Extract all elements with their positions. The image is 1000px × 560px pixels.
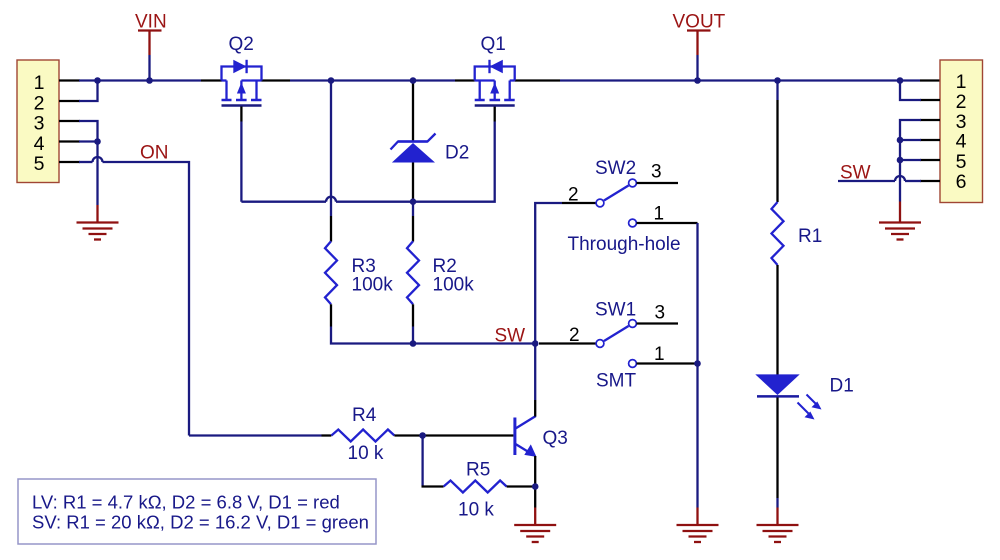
svg-text:10 k: 10 k — [348, 443, 384, 464]
node emitter/R5 — [532, 483, 539, 490]
R5 right pin (black) — [507, 485, 536, 487]
R2 top pin (black) — [412, 216, 414, 242]
svg-text:R5: R5 — [466, 460, 490, 481]
switch SW1 — [569, 300, 698, 368]
ground symbol (left connector) — [77, 223, 119, 240]
wire SW2 pin1 down right vertical — [696, 223, 698, 364]
wire pin1 to node — [79, 79, 98, 81]
svg-text:5: 5 — [34, 153, 45, 175]
VOUT lead blue — [696, 55, 698, 81]
svg-text:D1: D1 — [830, 376, 854, 397]
wire pin3 down — [900, 120, 921, 202]
svg-text:1: 1 — [654, 204, 665, 225]
node J2 pins 3-4 — [897, 137, 904, 144]
Q2 body arrow head — [237, 83, 246, 94]
D1 bottom pin (black) — [776, 398, 778, 499]
svg-text:1: 1 — [956, 71, 967, 93]
SW1 lever — [604, 326, 629, 341]
resistor R4 — [331, 430, 394, 442]
Q3 emitter pin (black) — [534, 456, 536, 487]
svg-text:SW1: SW1 — [595, 300, 636, 321]
Q3 base bar — [513, 418, 516, 456]
wire hop over ground vertical — [895, 176, 905, 181]
Q1 source vertical — [509, 81, 511, 101]
SW1 throw-3 contact circle — [629, 320, 637, 328]
LED D1 — [755, 374, 853, 419]
R3 bottom pin (black) — [330, 304, 332, 326]
SW1 throw-1 contact circle — [629, 360, 637, 368]
ground symbol (switch net) — [677, 525, 719, 542]
wire SW net to hop — [838, 180, 895, 182]
SW2 pin 3 lead (black) — [637, 182, 679, 184]
SW1 pin 1 lead (black) — [637, 362, 698, 364]
wire pin3 down to pin4 node — [79, 121, 98, 142]
VIN lead blue — [148, 55, 150, 81]
svg-text:4: 4 — [34, 133, 45, 155]
wire rail Q2 to R3 node — [290, 79, 331, 81]
wire D1 to ground — [776, 498, 778, 508]
ground symbol (D1) — [757, 525, 799, 542]
SW2 throw-3 contact circle — [629, 179, 637, 187]
Q2 body-diode loop — [222, 67, 262, 81]
svg-text:R1: R1 — [798, 226, 822, 247]
Q1 body diode triangle — [490, 60, 503, 73]
J2 pin 4 stub — [920, 139, 940, 141]
Q3 collector diagonal — [516, 416, 536, 429]
D1 light arrow 1 — [807, 395, 817, 405]
wire R3 bottom to SW rail — [331, 327, 413, 344]
wire R2 bottom to SW rail — [412, 327, 414, 344]
wire gate line horizontal (left of hop) — [241, 201, 326, 203]
node J1 pins 1-2 — [94, 77, 101, 84]
Q1 drain contact bar — [475, 99, 485, 102]
Q1 gate bar — [475, 104, 515, 107]
wire Q2 gate down — [240, 122, 242, 202]
SW1 pin 2 lead (black) — [539, 342, 596, 344]
wire rail Q1 to VOUT node — [560, 79, 920, 81]
node R3 tap — [328, 77, 335, 84]
R1 bottom pin (black) — [776, 265, 778, 375]
wire emitter node to ground — [534, 487, 536, 508]
resistor R3 — [325, 241, 337, 304]
SW2 common contact circle — [596, 199, 604, 207]
svg-text:R4: R4 — [352, 405, 377, 426]
Q2 body diode cathode bar — [245, 60, 247, 73]
Q1 body contact bar — [490, 99, 501, 102]
R1 top pin (black) — [776, 100, 778, 202]
SW2 throw-1 contact circle — [629, 219, 637, 227]
ground lead (red) — [899, 202, 901, 223]
D1 cathode bar — [757, 395, 799, 398]
svg-text:Q2: Q2 — [229, 34, 254, 55]
svg-text:ON: ON — [140, 143, 169, 164]
svg-text:3: 3 — [655, 303, 666, 324]
svg-text:5: 5 — [956, 151, 967, 173]
wire pin4 to node — [900, 139, 921, 141]
resistor R5 — [444, 481, 507, 493]
connector J2 (6-pin) — [940, 60, 983, 203]
SW2 pin 2 lead (black) — [562, 202, 596, 204]
Q2 source contact bar — [222, 99, 232, 102]
node D2 tap — [410, 77, 417, 84]
wire R1 node down — [776, 81, 778, 101]
J2 pin 6 stub — [920, 180, 940, 182]
wire VIN rail left section — [98, 79, 202, 81]
J1 pin 4 stub — [59, 140, 80, 142]
svg-text:Through-hole: Through-hole — [568, 234, 681, 255]
svg-text:10 k: 10 k — [458, 500, 494, 521]
wire pin2 up to node — [79, 81, 98, 102]
SW1 pin 3 lead (black) — [637, 322, 679, 324]
svg-text:3: 3 — [34, 113, 45, 135]
zener diode D2 — [391, 134, 470, 164]
Q3 emitter arrow head — [524, 444, 536, 457]
R2 bottom pin (black) — [412, 304, 414, 326]
D1 triangle — [755, 374, 799, 395]
Q2 source vertical — [225, 81, 227, 101]
wire R4 node down to R5 — [421, 436, 423, 487]
Q1 body-diode loop — [475, 67, 515, 81]
node VOUT tap — [694, 77, 701, 84]
wire hop over R3 vertical — [326, 197, 336, 202]
J1 pin 3 stub — [59, 120, 80, 122]
wire R3 node down — [330, 81, 332, 217]
D2 triangle (anode) — [392, 143, 435, 163]
wire hop to pin6 — [905, 180, 921, 182]
D2 top pin (black) — [412, 81, 414, 142]
node J2 pin 5 — [897, 157, 904, 164]
Q1 source pin (black) — [515, 79, 560, 81]
wire pin5 to node — [900, 159, 921, 161]
VIN underline — [138, 29, 162, 31]
J2 pin 3 stub — [920, 119, 940, 121]
node J2 pins 1-2 — [897, 77, 904, 84]
wire ON line to R4 — [189, 434, 322, 436]
Q1 source contact bar — [504, 99, 515, 102]
node R1 tap — [774, 77, 781, 84]
svg-text:3: 3 — [956, 111, 967, 133]
ground lead (red) — [534, 508, 536, 525]
svg-text:6: 6 — [956, 171, 967, 193]
wire ON horizontal then down — [103, 162, 190, 436]
wire hop over ground wire — [93, 157, 103, 162]
node R2 bottom — [410, 340, 417, 347]
svg-text:3: 3 — [651, 162, 662, 183]
node D2 anode / gate line — [410, 198, 417, 205]
connector J1 (5-pin) — [17, 60, 59, 183]
svg-text:1: 1 — [654, 344, 665, 365]
svg-text:SMT: SMT — [596, 371, 637, 392]
Q2 body contact bar — [236, 99, 247, 102]
svg-text:LV: R1 = 4.7 kΩ, D2 = 6.8 V, D: LV: R1 = 4.7 kΩ, D2 = 6.8 V, D1 = red — [32, 492, 340, 513]
node SMT pin 1 — [694, 360, 701, 367]
R4 right pin (black) — [394, 434, 422, 436]
resistor R1 — [772, 202, 784, 265]
wire SW rail to SW node — [413, 342, 535, 344]
wire rail R3 node to D2 node — [331, 79, 455, 81]
Q1 body arrow head — [490, 83, 499, 94]
Q2 drain vertical — [255, 81, 257, 101]
svg-text:2: 2 — [568, 185, 579, 206]
node VIN tap — [146, 77, 153, 84]
svg-text:SW2: SW2 — [595, 158, 636, 179]
svg-text:1: 1 — [34, 72, 45, 94]
wire pin5 / ON net with hop — [79, 161, 93, 163]
Q2 drain contact bar — [251, 99, 262, 102]
VOUT underline — [687, 29, 711, 31]
svg-text:2: 2 — [34, 92, 45, 114]
Q1 drain pin (black) — [455, 79, 475, 81]
ground lead (red) — [696, 508, 698, 525]
svg-text:2: 2 — [956, 91, 967, 113]
wire node down toward ground — [96, 142, 98, 206]
Q2 gate pin (black) — [240, 107, 242, 122]
J1 pin 2 stub — [59, 100, 80, 102]
svg-text:4: 4 — [956, 131, 967, 153]
wire SW node up to SW2 — [535, 203, 562, 344]
svg-text:2: 2 — [569, 325, 580, 346]
switch SW2 — [568, 158, 698, 227]
Q1 drain link (blue) — [475, 79, 495, 81]
ground symbol (Q3 emitter) — [514, 525, 556, 542]
Q2 gate bar — [222, 104, 262, 107]
Q1 gate pin (black) — [494, 107, 496, 122]
wire gate line horizontal to Q1 gate — [336, 122, 495, 202]
Q2 body diode triangle — [233, 60, 246, 73]
transistor Q2 (P-MOSFET with body diode) — [222, 34, 262, 106]
transistor Q1 (P-MOSFET with body diode, mirrored) — [475, 34, 515, 106]
SW1 common contact circle — [596, 340, 604, 348]
svg-text:SW: SW — [495, 326, 526, 347]
D2 bottom pin (black) — [412, 163, 414, 202]
J1 pin 1 stub — [59, 79, 80, 81]
ground symbol (right connector) — [879, 223, 921, 240]
node SW — [532, 340, 539, 347]
svg-text:Q3: Q3 — [543, 428, 568, 449]
wire pin4 to node — [79, 140, 98, 142]
Q3 emitter diagonal — [516, 444, 532, 454]
Q1 body arrow line — [494, 81, 496, 100]
svg-text:SV: R1 = 20 kΩ, D2 = 16.2 V, D: SV: R1 = 20 kΩ, D2 = 16.2 V, D1 = green — [32, 512, 369, 533]
ground lead (red) — [96, 205, 98, 222]
svg-text:Q1: Q1 — [481, 34, 506, 55]
J2 pin 1 stub — [920, 79, 940, 81]
VOUT lead red — [696, 31, 698, 55]
Q1 source link (blue) — [510, 79, 515, 81]
Q1 drain vertical — [479, 81, 481, 101]
transistor Q3 (NPN) — [515, 416, 568, 457]
Q2 body arrow line — [240, 81, 242, 100]
wire pin2 up to VOUT node — [900, 81, 921, 101]
Q3 base lead (black) — [423, 434, 514, 436]
resistor R2 — [407, 241, 419, 304]
SW2 lever — [604, 186, 629, 201]
R3 top pin (black) — [330, 216, 332, 242]
D1 light arrow 2 — [798, 403, 809, 414]
Q2 drain pin (black) — [262, 79, 291, 81]
D2 cathode bar with zener ticks — [391, 134, 436, 150]
svg-text:D2: D2 — [445, 143, 469, 164]
wire D2 node down — [412, 202, 414, 216]
note box — [18, 479, 376, 544]
node R4/R5/base — [419, 432, 426, 439]
svg-text:100k: 100k — [433, 275, 475, 296]
wire right vertical down to ground — [696, 364, 698, 507]
SW2 pin 1 lead (black) — [637, 222, 698, 224]
ground lead (red) — [776, 508, 778, 525]
Q1 body diode cathode bar — [488, 60, 490, 73]
Q2 source pin (black) — [201, 79, 222, 81]
Q3 collector pin (black) — [534, 400, 536, 417]
Q2 source link (blue) — [222, 79, 227, 81]
svg-text:100k: 100k — [352, 275, 394, 296]
Q2 drain link (blue) — [241, 79, 261, 81]
R5 left pin (black) — [422, 485, 444, 487]
J2 pin 5 stub — [920, 159, 940, 161]
VIN lead red — [148, 31, 150, 55]
node J1 pins 3-4 — [94, 138, 101, 145]
J2 pin 2 stub — [920, 99, 940, 101]
R4 left pin (black) — [322, 434, 332, 436]
J1 pin 5 stub — [59, 161, 80, 163]
wire SW node down to Q3 collector — [534, 344, 536, 401]
